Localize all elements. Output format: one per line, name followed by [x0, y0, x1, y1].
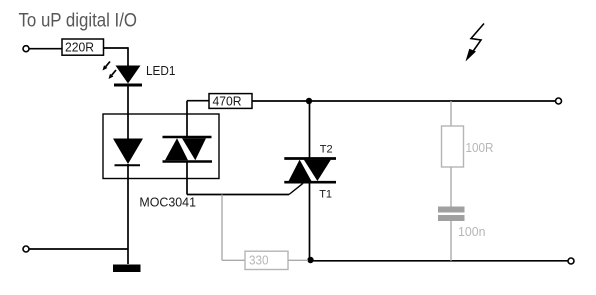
label T2	[320, 143, 333, 155]
resistor 470R	[209, 94, 252, 109]
wire junction down to triac T2	[309, 101, 311, 158]
resistor 330 (grey)	[245, 251, 288, 269]
label MOC3041	[139, 194, 196, 209]
svg-text:T2: T2	[320, 143, 333, 155]
resistor 220R	[62, 39, 104, 55]
label LED1	[146, 63, 176, 78]
wire top rail to resistor 100R (grey)	[450, 101, 452, 126]
net label "To uP digital I/O"	[19, 11, 138, 32]
svg-text:330: 330	[249, 254, 269, 268]
svg-text:470R: 470R	[213, 95, 242, 109]
capacitor 100n (grey)	[438, 207, 486, 240]
wire capacitor to bottom rail (grey)	[450, 221, 452, 261]
resistor 100R (grey)	[442, 126, 494, 167]
svg-text:MOC3041: MOC3041	[139, 194, 196, 209]
wire triac T1 down to bottom rail	[309, 184, 311, 261]
svg-text:100n: 100n	[458, 225, 486, 239]
wire 220R to LED1 anode	[104, 47, 129, 66]
svg-text:LED1: LED1	[146, 63, 176, 78]
ground	[113, 265, 141, 273]
triac	[284, 159, 336, 183]
junction node (T1 / 330 / bottom rail)	[307, 257, 313, 263]
wire LED1 cathode into optocoupler	[127, 86, 129, 139]
wire gate to resistor 330 (snubber, grey)	[222, 195, 245, 261]
diode (inside U1)	[113, 139, 143, 166]
wire 100R to capacitor 100n (grey)	[450, 167, 452, 207]
wire bottom-left terminal to ground run	[30, 248, 129, 250]
wire photo-triac top to resistor 470R	[187, 101, 209, 137]
terminal (top left)	[23, 46, 29, 52]
svg-text:100R: 100R	[466, 141, 494, 155]
svg-text:T1: T1	[319, 188, 332, 200]
label T1	[319, 188, 332, 200]
wire photo-triac bottom to gate	[187, 162, 303, 195]
svg-text:To uP digital I/O: To uP digital I/O	[19, 11, 138, 32]
mains surge symbol (lightning bolt)	[466, 24, 485, 62]
wire diode cathode to ground run	[127, 164, 129, 264]
terminal (bottom right)	[568, 258, 574, 264]
junction node (top rail / triac T2)	[306, 98, 312, 104]
LED1	[103, 62, 143, 86]
optocoupler U1 box	[103, 114, 219, 179]
terminal (top right)	[556, 98, 562, 104]
wire terminal to R 220R	[30, 48, 63, 50]
terminal (bottom left)	[23, 246, 29, 252]
wire 470R to top rail	[252, 100, 556, 102]
wire 330 to junction (grey)	[288, 259, 308, 261]
svg-text:220R: 220R	[65, 40, 94, 54]
photo-triac (inside U1)	[163, 137, 213, 162]
bottom rail wire	[310, 260, 569, 262]
